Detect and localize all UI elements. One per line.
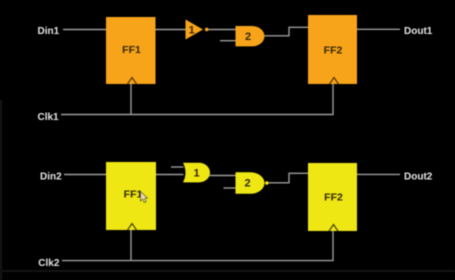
svg-text:FF1: FF1 — [122, 44, 141, 56]
svg-text:FF1: FF1 — [124, 189, 143, 201]
svg-text:Dout1: Dout1 — [404, 26, 433, 37]
svg-text:Din1: Din1 — [38, 26, 60, 37]
svg-text:Din2: Din2 — [40, 171, 62, 182]
svg-text:2: 2 — [245, 31, 251, 43]
svg-text:FF2: FF2 — [324, 45, 343, 57]
svg-text:Dout2: Dout2 — [404, 171, 433, 182]
svg-text:1: 1 — [189, 25, 195, 37]
svg-text:Clk2: Clk2 — [38, 258, 60, 269]
svg-text:1: 1 — [193, 168, 199, 180]
svg-text:Clk1: Clk1 — [38, 112, 60, 123]
svg-text:2: 2 — [244, 178, 250, 190]
svg-text:FF2: FF2 — [324, 192, 343, 204]
